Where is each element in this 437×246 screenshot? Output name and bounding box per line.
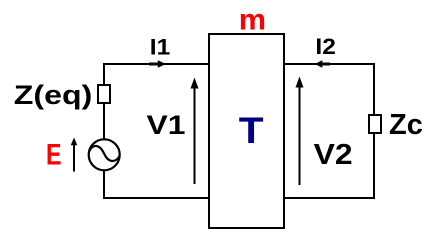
arrow V2 shaft (up) (299, 83, 301, 185)
arrow V2 head (296, 77, 304, 88)
wire: right vertical upper (corner to Zc) (373, 63, 375, 116)
arrow I1 head (right) (158, 60, 166, 67)
AC source sine wave (89, 146, 120, 161)
svg-text:I1: I1 (150, 35, 171, 60)
wire: left loop left vertical upper (corner to Z(eq)) (103, 63, 105, 86)
arrow V1 shaft (up) (194, 84, 196, 184)
svg-text:V1: V1 (147, 110, 186, 140)
arrow V1 head (191, 78, 199, 89)
wire: right vertical below Zc (373, 132, 375, 199)
arrow I1 shaft (thicker overlay on wire) (149, 63, 159, 66)
arrow I2 head (left) (315, 60, 323, 67)
svg-text:Z(eq): Z(eq) (14, 80, 93, 110)
arrow E (up) shaft (73, 143, 75, 172)
wire: left loop bottom horizontal (103, 197, 209, 199)
wire: right loop bottom horizontal (284, 197, 375, 199)
svg-text:V2: V2 (314, 139, 353, 171)
AC source E circle (89, 139, 120, 170)
wire: right loop top horizontal (284, 63, 375, 65)
resistor Z(eq) body (98, 85, 110, 103)
svg-text:I2: I2 (315, 34, 336, 59)
two-port box T (209, 34, 284, 228)
svg-text:m: m (239, 3, 266, 36)
svg-text:T: T (239, 109, 264, 151)
arrow I2 shaft (thicker overlay on wire) (321, 63, 330, 66)
wire: left vertical below source (103, 170, 105, 199)
arrow E head (71, 138, 78, 146)
wire: left vertical between Z(eq) and source (103, 102, 105, 140)
svg-text:E: E (46, 138, 62, 171)
resistor Zc body (369, 115, 381, 133)
svg-text:Zc: Zc (389, 109, 423, 141)
wire: left loop top horizontal (103, 63, 209, 65)
